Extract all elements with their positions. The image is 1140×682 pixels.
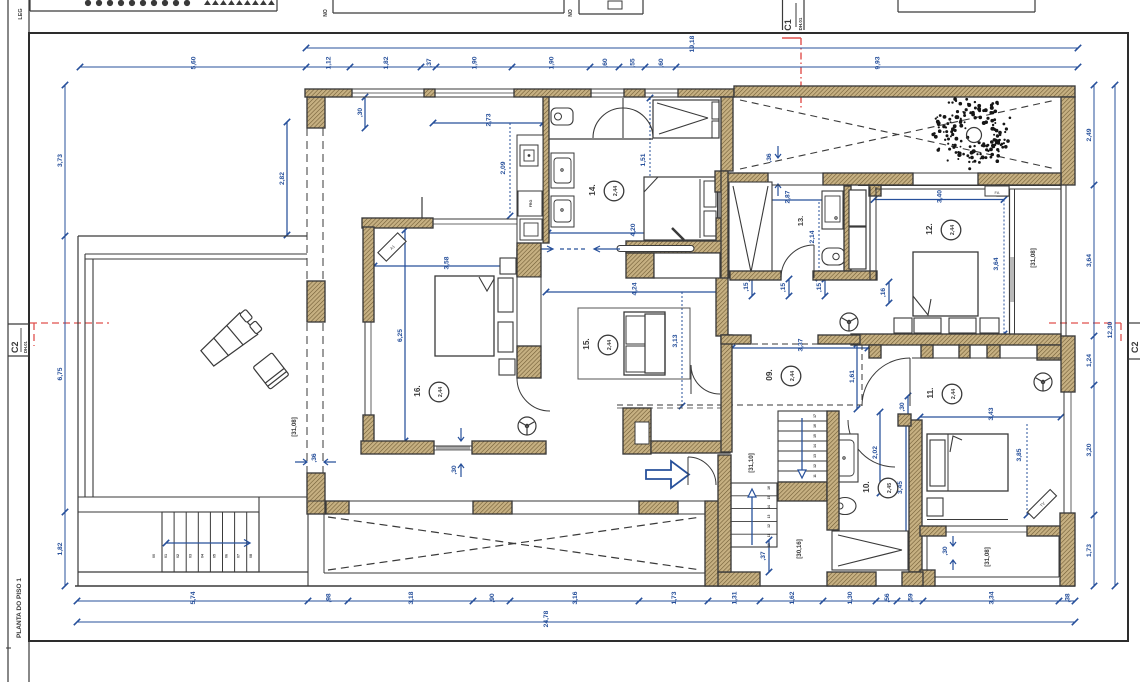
svg-text:3,73: 3,73 (57, 154, 64, 167)
dim row bottom segments (74, 591, 1078, 604)
svg-text:2,82: 2,82 (279, 172, 286, 185)
svg-text:3,13: 3,13 (672, 334, 679, 347)
svg-text:4,24: 4,24 (632, 282, 639, 295)
svg-text:C1: C1 (783, 19, 793, 31)
stairs top wall a (721, 335, 751, 344)
right wall upper (1061, 336, 1075, 392)
svg-text:12.: 12. (925, 223, 934, 234)
room12 top lines (858, 186, 1061, 190)
svg-text:3,40: 3,40 (937, 190, 944, 203)
svg-text:16: 16 (813, 424, 817, 428)
section line C1 red (782, 38, 801, 110)
room16 bed (435, 276, 513, 356)
top window c3 (645, 89, 678, 97)
room11 bed (927, 434, 1008, 491)
svg-text:,56: ,56 (884, 593, 891, 603)
building bottom edge (75, 585, 1075, 587)
section line C2 red right (1049, 323, 1121, 344)
svg-text:15: 15 (813, 434, 817, 438)
svg-text:,36: ,36 (311, 453, 318, 463)
terrace stairs arrow (163, 540, 250, 547)
svg-text:9,93: 9,93 (875, 56, 882, 69)
right wall lower (1060, 513, 1075, 586)
sheet margin inner line (28, 0, 30, 682)
svg-text:08: 08 (249, 554, 253, 558)
dim 4,20 (545, 223, 720, 236)
top bath WC (551, 108, 573, 125)
terrace strip pier 1 (869, 185, 881, 196)
svg-text:[31,10]: [31,10] (748, 453, 755, 473)
svg-text:,30: ,30 (357, 108, 364, 118)
kitchen fridge (518, 191, 542, 216)
svg-text:NO: NO (323, 9, 329, 17)
dim 4,24 (543, 282, 725, 295)
top window a (352, 89, 424, 97)
top wall segment c1 (514, 89, 591, 97)
hall door jamb line (421, 197, 423, 218)
svg-text:5,60: 5,60 (191, 56, 198, 69)
svg-text:2,87: 2,87 (785, 190, 792, 203)
room16 door arc (517, 378, 550, 411)
section C2 left label box (8, 324, 29, 356)
room15 hatch block (626, 253, 654, 278)
svg-text:2,02: 2,02 (872, 446, 879, 459)
entry wall column (718, 455, 731, 572)
entry arrow (646, 461, 689, 488)
svg-text:,60: ,60 (602, 58, 609, 68)
dim 2,82 (279, 119, 290, 238)
svg-text:4,20: 4,20 (630, 223, 637, 236)
terrace stairs step numbers (152, 554, 253, 558)
svg-text:11.: 11. (926, 388, 935, 399)
svg-text:[31,08]: [31,08] (1030, 248, 1037, 268)
dim 1,51 (640, 95, 653, 192)
room16 left window (365, 322, 371, 415)
stairs lower flight (731, 483, 777, 547)
svg-text:,30: ,30 (899, 402, 906, 412)
terrace inner wall left (85, 254, 93, 497)
terrace strip bottom opening b (913, 173, 978, 185)
svg-text:1,73: 1,73 (671, 591, 678, 604)
room label 15 (582, 335, 618, 355)
stairs arrow up (748, 489, 756, 545)
room11 nightstand (927, 498, 943, 516)
top wall segment c2 (624, 89, 645, 97)
room label 16 (413, 382, 449, 402)
room10 wc (834, 498, 856, 515)
svg-text:2,44: 2,44 (951, 389, 957, 399)
svg-text:,15: ,15 (780, 283, 787, 293)
wall 16-15 niche (517, 277, 541, 346)
room15 bottom band (651, 441, 730, 453)
dim 3,40 (871, 190, 1007, 203)
room label 13 (796, 216, 805, 226)
svg-text:,15: ,15 (816, 283, 823, 293)
svg-text:1,61: 1,61 (849, 370, 856, 383)
stairs step numbers lower (767, 486, 771, 547)
room10 bottom wall b (902, 572, 923, 586)
bath13 divider (771, 182, 773, 278)
svg-text:00: 00 (152, 554, 156, 558)
svg-text:,98: ,98 (326, 593, 333, 603)
stairs top wall left (721, 335, 732, 452)
svg-text:16.: 16. (413, 385, 422, 396)
svg-text:1,31: 1,31 (732, 591, 739, 604)
svg-text:12: 12 (813, 464, 817, 468)
room16 bottom window (434, 446, 472, 450)
room15 basin niche (520, 356, 539, 373)
top window b (435, 89, 514, 97)
dim 3,64 room12 (993, 200, 1007, 338)
terrace left edge (77, 236, 79, 586)
room11 bottom wall b (1027, 526, 1060, 536)
wall 12-11 pier3 (987, 345, 1000, 358)
svg-text:1,90: 1,90 (472, 56, 479, 69)
room14 basin 1 (551, 153, 574, 188)
wall 16-15 upper (517, 243, 541, 277)
dim ,30 room11 (899, 393, 911, 421)
wall 12-11 end block (1037, 345, 1061, 360)
svg-text:2,14: 2,14 (809, 230, 816, 243)
svg-text:LEG: LEG (18, 8, 24, 19)
section C2 right label box (1128, 323, 1140, 359)
room10 bottom wall a (827, 572, 876, 586)
kitchen counter (517, 135, 543, 243)
room15 left wall niche (517, 249, 536, 276)
svg-text:,37: ,37 (760, 551, 767, 561)
room14 right wall lower (716, 218, 728, 336)
svg-text:13: 13 (813, 454, 817, 458)
top wall pier b (424, 89, 435, 97)
svg-text:1,82: 1,82 (57, 542, 64, 555)
label 31,08 balcony (984, 547, 991, 567)
colonnade pier top (307, 97, 325, 128)
svg-text:15.: 15. (582, 338, 591, 349)
terrace strip bottom wall b (823, 173, 913, 185)
top wall segment a (305, 89, 352, 97)
svg-text:13: 13 (767, 515, 771, 519)
dim ,15 c (816, 276, 828, 299)
dim 3,43 (917, 407, 1064, 420)
room15 rug (578, 308, 690, 379)
svg-text:3,20: 3,20 (1086, 443, 1093, 456)
svg-text:5,74: 5,74 (190, 591, 197, 604)
section line C2 red left (30, 323, 109, 346)
svg-text:2,73: 2,73 (486, 113, 493, 126)
svg-text:11: 11 (767, 534, 771, 538)
svg-text:,55: ,55 (630, 58, 637, 68)
legend box 4 (898, 0, 1035, 12)
svg-text:1,82: 1,82 (383, 56, 390, 69)
dim ,30 topleft (357, 94, 368, 131)
svg-text:3,43: 3,43 (988, 407, 995, 420)
dim 2,09 (500, 123, 513, 219)
room11 door (862, 358, 910, 406)
svg-text:1,73: 1,73 (1086, 544, 1093, 557)
svg-text:03: 03 (188, 554, 192, 558)
void dashed X (328, 517, 701, 570)
section marker C1 label (783, 0, 805, 31)
dim ,37 stairs (760, 537, 772, 575)
room14 right wall upper (715, 171, 727, 192)
wall 12-11 (851, 334, 1061, 345)
svg-text:06: 06 (225, 554, 229, 558)
kitchen cooktop (520, 145, 538, 166)
terrace strip dashed X (740, 100, 1056, 169)
dim 2,02 (872, 409, 883, 496)
room14 door side (721, 97, 733, 171)
right outer window upper (1061, 185, 1066, 336)
dim row 19,18 (303, 35, 1081, 52)
room16 bottom wall b (472, 441, 546, 454)
terrace right vertical (259, 497, 308, 586)
svg-text:3,18: 3,18 (408, 591, 415, 604)
top window c1 (591, 89, 624, 97)
terrace strip bottom opening a (768, 173, 823, 185)
dim 6,25 (397, 227, 408, 444)
svg-text:2,44: 2,44 (438, 387, 444, 397)
dim ,15 a (743, 275, 755, 299)
right wall window (1064, 392, 1071, 513)
svg-text:DH.01: DH.01 (798, 17, 803, 30)
svg-text:,37: ,37 (426, 58, 433, 68)
bath13 door (781, 245, 814, 278)
label NO rotated (323, 9, 329, 17)
terrace inner wall top (85, 254, 307, 259)
hall wall vertical (363, 227, 374, 322)
room label 10 (862, 478, 898, 498)
top wall segment d (678, 89, 734, 97)
room14 bed (644, 177, 719, 240)
void top line (308, 500, 721, 502)
room15 top cabinet (654, 253, 720, 278)
dim 1,61 (849, 341, 860, 412)
svg-text:10: 10 (767, 543, 771, 547)
stairs right wall (827, 411, 839, 530)
svg-text:,30: ,30 (451, 465, 458, 475)
dim 3,58 (371, 256, 521, 269)
stairs step numbers upper (813, 414, 817, 478)
room15 door right (691, 365, 720, 394)
room14 wardrobe (653, 100, 719, 138)
stairs landing (778, 482, 827, 501)
room12 closet box (849, 190, 866, 269)
stairs arrow down (798, 418, 806, 478)
label 31,10 (748, 453, 755, 473)
bath13 bottom wall b (813, 271, 877, 280)
dim ,30 balcony (942, 536, 956, 570)
svg-text:,30: ,30 (942, 546, 949, 556)
svg-text:2,44: 2,44 (607, 340, 613, 350)
svg-text:,59: ,59 (908, 593, 915, 603)
svg-text:1,90: 1,90 (549, 56, 556, 69)
colonnade pier bottom (307, 473, 325, 514)
dim column right inner (1086, 82, 1097, 589)
legend box 2 (333, 0, 564, 13)
svg-text:19,18: 19,18 (689, 35, 696, 52)
top bath bottom wall (549, 138, 653, 140)
room11 left wall (909, 420, 922, 572)
terrace strip pier 2 (997, 185, 1009, 196)
lounge chair 2 (253, 353, 289, 390)
bath13 right wall (844, 186, 851, 271)
terrace lower edge lines (78, 497, 308, 512)
room14 terrace window (718, 192, 724, 218)
svg-text:3,58: 3,58 (444, 256, 451, 269)
terrace strip right wall (1061, 97, 1075, 185)
label 31,08 colonnade (291, 417, 298, 437)
tree planter (931, 97, 1011, 170)
stairs upper flight (778, 411, 827, 482)
svg-text:[30,16]: [30,16] (796, 539, 803, 559)
svg-text:3,64: 3,64 (993, 257, 1000, 270)
wall 16-15 lower (517, 346, 541, 378)
lounge chair 1 (198, 308, 263, 369)
bath13 left wall (721, 171, 728, 278)
svg-text:6,25: 6,25 (397, 329, 404, 342)
dim column right 12,30 (1107, 82, 1118, 589)
void rect (324, 514, 705, 573)
svg-text:01: 01 (164, 554, 168, 558)
entry door arc (688, 457, 716, 485)
svg-text:2,44: 2,44 (613, 186, 619, 196)
svg-text:[31,08]: [31,08] (984, 547, 991, 567)
svg-text:,15: ,15 (743, 282, 750, 292)
bath13 sink (822, 191, 843, 229)
svg-text:C2: C2 (1130, 341, 1140, 353)
svg-text:2,45: 2,45 (887, 483, 893, 493)
svg-text:,60: ,60 (658, 58, 665, 68)
svg-text:6,75: 6,75 (57, 367, 64, 380)
svg-text:2,44: 2,44 (790, 371, 796, 381)
bottom wall left piece (718, 572, 760, 586)
room12 vent box (985, 186, 1009, 196)
room12 right window (1010, 189, 1015, 334)
svg-text:3,34: 3,34 (989, 591, 996, 604)
svg-text:07: 07 (237, 554, 241, 558)
svg-text:15: 15 (767, 496, 771, 500)
terrace top edge (78, 235, 307, 237)
AC unit diagonal (378, 233, 406, 261)
svg-text:12: 12 (767, 524, 771, 528)
legend box 1 (30, 0, 277, 11)
room11 bottom wall a (920, 526, 946, 536)
wall 12-11 pier1 (921, 345, 933, 358)
room16 bottom wall a (361, 441, 434, 454)
room15 bed (624, 312, 665, 375)
dim 3,85 (1016, 424, 1030, 518)
label LEG rotated (18, 8, 24, 19)
dim column left (57, 82, 68, 589)
hall window line (433, 219, 548, 224)
room12 bed (894, 252, 999, 333)
terrace stairs steps (174, 512, 247, 572)
svg-text:10.: 10. (862, 481, 871, 492)
svg-text:1,51: 1,51 (640, 153, 647, 166)
bath13 wc (822, 248, 845, 265)
void wall right (705, 501, 720, 586)
colonnade pier middle (307, 281, 325, 322)
svg-text:2,49: 2,49 (1086, 128, 1093, 141)
svg-text:3,64: 3,64 (1086, 254, 1093, 267)
top bath door (593, 98, 653, 138)
label NO rotated 2 (568, 9, 574, 17)
svg-text:,16: ,16 (880, 288, 887, 298)
void band pier 1 (326, 501, 349, 514)
terrace stairs outline (162, 512, 259, 572)
dim 2,14 (809, 202, 822, 281)
svg-text:1,30: 1,30 (847, 591, 854, 604)
room14 pocket door band (626, 241, 728, 253)
svg-text:04: 04 (200, 554, 204, 558)
legend box 3 (579, 0, 643, 14)
svg-text:1,12: 1,12 (326, 56, 333, 69)
svg-text:3,16: 3,16 (572, 591, 579, 604)
label 31,08 room12 (1030, 248, 1037, 268)
room10 shower (832, 531, 908, 570)
room16 nightstand bottom (499, 359, 515, 375)
room09 dashed right (861, 344, 863, 405)
dim ,30 room16 wall (451, 428, 464, 477)
svg-text:14: 14 (767, 505, 771, 509)
terrace strip bottom wall c (978, 173, 1061, 185)
svg-text:PLANTA DO PISO 1: PLANTA DO PISO 1 (16, 578, 23, 638)
room15 closet L (623, 408, 651, 454)
wall 12-11 pier0 (869, 345, 881, 358)
svg-text:1,24: 1,24 (1086, 354, 1093, 367)
room16 fan (518, 417, 536, 435)
svg-text:16: 16 (767, 486, 771, 490)
room16 nightstand top (500, 258, 516, 274)
svg-text:1,62: 1,62 (789, 591, 796, 604)
room11 wall pier top (898, 414, 911, 426)
bath13 shower (729, 182, 772, 278)
bath13 bottom wall a (730, 271, 781, 280)
kitchen wall right (543, 97, 549, 243)
label PLANTA DO PISO 1 (16, 578, 23, 638)
room09 dashed bottom (617, 405, 862, 408)
dim row top segments (77, 56, 1081, 70)
svg-text:12,30: 12,30 (1107, 321, 1114, 338)
svg-text:2,44: 2,44 (950, 225, 956, 235)
room11 bench line (927, 519, 1008, 521)
svg-text:NO: NO (568, 9, 574, 17)
dim 3,37 (729, 338, 871, 351)
svg-text:11: 11 (813, 474, 817, 478)
dim 2,87 (727, 190, 847, 203)
dim 3,13 (672, 292, 685, 409)
room label 14 (588, 181, 624, 201)
wall 12-11 pier2 (959, 345, 970, 358)
room label 12 (925, 220, 961, 240)
svg-text:,38: ,38 (1065, 593, 1072, 603)
room11 tv (1028, 490, 1057, 519)
colonnade dashed lines (307, 128, 323, 473)
terrace bottom line (78, 571, 308, 573)
terrace strip top wall (734, 86, 1075, 97)
svg-text:DH.01: DH.01 (23, 340, 28, 353)
svg-text:FRG: FRG (529, 200, 533, 208)
svg-text:3,37: 3,37 (798, 338, 805, 351)
dim 2,73 (430, 113, 546, 126)
room label 09 (765, 366, 801, 386)
room14 pocket door slot (617, 246, 694, 252)
svg-text:C2: C2 (10, 341, 20, 353)
terrace strip bottom wall a (721, 173, 768, 185)
svg-text:13.: 13. (796, 216, 805, 226)
dim 3,45 (897, 415, 909, 560)
room14 basin 2 (551, 196, 574, 227)
